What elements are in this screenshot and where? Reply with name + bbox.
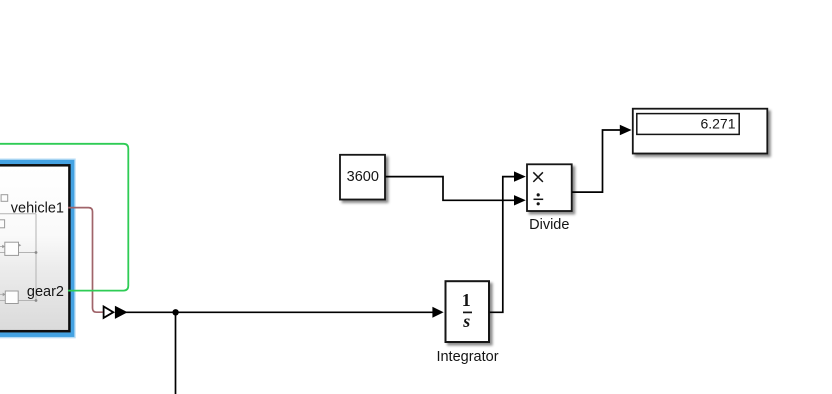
svg-text:Divide: Divide [529,217,569,233]
subsystem U1 (selected, partially off-canvas) [0,162,72,335]
divide symbol [534,193,544,205]
preview tick right of sq3 [19,244,22,247]
preview block sq4 [5,291,18,304]
preview block sq3 [5,242,19,255]
start arrowhead (filled) [115,306,128,319]
svg-text:1: 1 [462,290,471,310]
wire: 3600 to divide bottom input [386,177,526,206]
arrowhead into divide (divisor) [514,195,526,205]
wire: divide out to display [572,125,632,192]
preview stub into sq3 [0,246,5,248]
junction node [172,309,178,315]
svg-text:6.271: 6.271 [700,116,735,132]
arrowhead into integrator [432,307,443,318]
svg-text:3600: 3600 [347,169,379,185]
selection glow [0,162,72,335]
preview stub arrow sq3 [2,245,5,249]
arrowhead into display [620,125,632,135]
arrowhead into divide (dividend) [514,171,526,181]
multiply symbol [533,172,543,182]
preview block sq1 [1,195,8,202]
svg-text:vehicle1: vehicle1 [11,201,64,217]
preview wire mid [0,252,36,254]
subsystem body [0,165,69,331]
wire: green from gear2 loop to top-left [0,144,128,291]
divide block U2 [527,164,572,233]
wire: main signal to integrator [115,306,444,319]
preview block sq2 [0,220,5,228]
svg-text:s: s [462,311,470,331]
svg-text:gear2: gear2 [27,284,64,300]
wire: branch downward [175,312,177,394]
preview stub into sq4 [0,293,5,295]
display block U4 [633,109,768,154]
wire: red unconnected from vehicle1 [68,208,103,313]
preview wire vertical [35,214,37,301]
fraction bar [463,311,472,313]
preview stub arrow sq4 [3,293,6,297]
constant block 3600 [340,155,385,200]
integrator block U3 [436,281,498,365]
preview wire horizontal under vehicle1 [0,213,36,215]
svg-text:Integrator: Integrator [436,349,498,365]
preview junction mid [35,251,38,254]
display value box [637,114,739,135]
hollow arrowhead (unconnected end) [104,307,114,318]
wire: integrator out up to divide top input [490,171,526,312]
preview wire bottom [0,300,36,302]
preview junction bottom [35,299,38,302]
selection border (blue) [0,162,72,335]
